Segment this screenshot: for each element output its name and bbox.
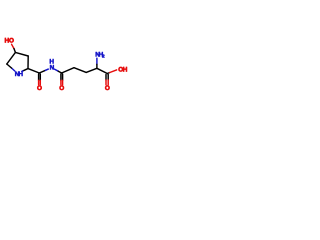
bond O3-C4 red half (12, 44, 14, 48)
bond C11-O12 black half (107, 73, 110, 74)
ring NH label (15, 71, 24, 78)
bond C10-C11 (97, 68, 107, 73)
bond C8-C9 (74, 68, 86, 73)
bond O3-C4 black half (14, 49, 15, 53)
svg-text:H: H (18, 71, 23, 78)
carbonyl C7=O double bond red part (61, 80, 63, 84)
carboxyl OH label (118, 67, 127, 74)
svg-text:2: 2 (102, 54, 105, 60)
svg-text:O: O (105, 85, 110, 92)
svg-text:O: O (37, 85, 42, 92)
ring bond C2-N1 black half (23, 69, 28, 71)
svg-text:N: N (50, 65, 55, 72)
svg-text:H: H (123, 67, 128, 74)
ring bond C2-N1 blue half (22, 70, 23, 73)
bond N2-C7 black half (58, 71, 61, 73)
carbonyl C6=O double bond red part (39, 80, 41, 84)
bond C2-C6 (28, 69, 39, 73)
bond C9-C10 (86, 68, 97, 72)
bond C11-O12 red half (110, 70, 117, 73)
ring bond C5-C4 (7, 52, 16, 64)
bond N3-C10 blue half (96, 58, 98, 64)
bond N2-C7 blue half (54, 69, 58, 71)
carbonyl C7=O double bond black part (61, 74, 63, 80)
ring bond C3-C2 (27, 56, 29, 69)
ring bond N1-C5 black half (7, 64, 12, 68)
carbonyl C6=O double bond black part (39, 74, 41, 80)
ring bond N1-C5 blue half (12, 68, 15, 71)
hydroxyl label HO (4, 38, 14, 45)
svg-text:O: O (59, 85, 64, 92)
bond C6-N2 black half (39, 70, 45, 73)
ring bond C4-C3 (15, 52, 28, 56)
bond C7-C8 (62, 68, 74, 73)
bond N3-C10 black half (96, 64, 98, 68)
amine NH2 label (95, 52, 105, 60)
carboxyl C11=O double bond black part (106, 75, 108, 81)
carboxyl C11=O double bond red part (106, 80, 108, 85)
bond C6-N2 blue half (46, 69, 49, 70)
